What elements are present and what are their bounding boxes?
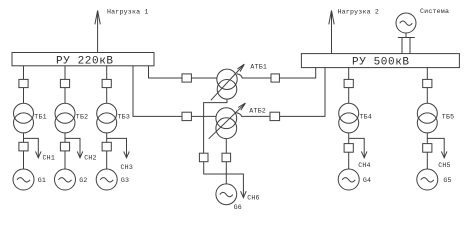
wire system stub (405, 33, 407, 38)
wire system line 2 (409, 38, 411, 54)
svg-text:СН4: СН4 (358, 162, 370, 169)
wire load 2 riser (331, 11, 333, 54)
wire breaker to transformer ТБ1 (23, 88, 25, 104)
busbar РУ 220кВ (12, 53, 154, 66)
svg-text:G5: G5 (443, 177, 451, 184)
wire system line 1 (401, 38, 403, 54)
transformer ТБ4 (339, 103, 359, 133)
arrow СН4 (361, 151, 367, 157)
transformer ТБ1 (14, 103, 34, 133)
svg-text:Система: Система (420, 8, 449, 15)
breaker (branch 5 lower) (423, 144, 432, 153)
wire transformer ТБ5 to breaker (426, 133, 428, 144)
breaker (АТБ1 220 side) (182, 74, 191, 82)
breaker (АТБ2 220 side) (182, 112, 191, 120)
wire bus 220 drop to АТБ2 (133, 66, 182, 117)
svg-text:G6: G6 (234, 204, 242, 211)
wire breaker to transformer ТБ2 (64, 88, 66, 104)
svg-text:РУ 500кВ: РУ 500кВ (352, 57, 410, 69)
wire breaker to АТБ1 (191, 77, 217, 79)
breaker (АТБ2 500 side) (270, 112, 280, 120)
svg-text:G1: G1 (38, 177, 46, 184)
arrow СН6 (241, 191, 247, 197)
tap wire to СН1 (24, 138, 39, 157)
transformer ТБ2 (55, 103, 75, 133)
autotransformer АТБ1 (217, 69, 237, 99)
wire transformer ТБ3 to breaker (106, 133, 108, 142)
svg-text:ТБ1: ТБ1 (34, 114, 46, 121)
wire bus to breaker (branch 4) (348, 68, 350, 80)
wire tertiary join left (204, 162, 227, 174)
wire breaker to transformer ТБ5 (426, 88, 428, 104)
arrow Нагрузка 1 (95, 11, 100, 25)
regulation arrow АТБ1 (211, 64, 245, 100)
breaker (branch 2 upper) (60, 79, 69, 87)
generator G2 (55, 169, 76, 190)
tap wire to СН3 (107, 138, 127, 157)
generator G4 (338, 169, 359, 190)
generator G5 (417, 169, 438, 190)
wire АТБ1 tertiary (204, 99, 227, 153)
generator G1 (13, 169, 34, 190)
transformer ТБ5 (417, 103, 437, 133)
svg-text:СН5: СН5 (438, 162, 450, 169)
tap wire to СН4 (349, 138, 365, 157)
wire bus to breaker (branch 2) (64, 66, 66, 80)
svg-text:ТБ4: ТБ4 (360, 114, 372, 121)
wire transformer ТБ2 to breaker (64, 133, 66, 142)
svg-text:G4: G4 (363, 177, 371, 184)
svg-text:Нагрузка 2: Нагрузка 2 (338, 8, 380, 15)
svg-text:РУ 220кВ: РУ 220кВ (56, 55, 114, 67)
arrow СН2 (77, 151, 83, 157)
wire breaker to generator G4 (348, 152, 350, 169)
wire bus to breaker (branch 5) (426, 68, 428, 80)
breaker (branch 2 lower) (60, 142, 69, 151)
generator G3 (96, 169, 117, 190)
autotransformer АТБ2 (216, 108, 237, 139)
wire breaker to transformer ТБ3 (106, 88, 108, 104)
wire breaker to generator G1 (23, 151, 25, 169)
wire breaker to generator G5 (426, 152, 428, 169)
breaker (branch 4 lower) (344, 144, 353, 153)
regulation arrow АТБ2 (209, 103, 246, 139)
wire АТБ1 to bus 500 (279, 68, 315, 78)
wire transformer ТБ1 to breaker (23, 133, 25, 142)
wire breaker to generator G2 (64, 151, 66, 169)
svg-text:АТБ2: АТБ2 (249, 108, 266, 115)
wire bus 220 drop to АТБ1 (149, 66, 183, 78)
tap wire to СН5 (427, 138, 444, 157)
wire bus to breaker (branch 3) (106, 66, 108, 80)
svg-text:СН2: СН2 (84, 155, 96, 162)
svg-text:ТБ5: ТБ5 (442, 114, 454, 121)
wire АТБ2 right arc (236, 113, 270, 117)
wire АТБ1 right arc (237, 74, 271, 78)
arrow Нагрузка 2 (329, 11, 334, 25)
breaker (tertiary АТБ1) (199, 153, 208, 162)
breaker (branch 3 upper) (102, 79, 111, 87)
system tie bar (398, 37, 415, 39)
wire tertiary join right to G6 (225, 162, 227, 184)
svg-text:ТБ2: ТБ2 (76, 114, 88, 121)
breaker (branch 1 upper) (19, 79, 28, 87)
svg-text:АТБ1: АТБ1 (250, 63, 267, 70)
tap wire to СН6 (226, 174, 243, 197)
breaker (branch 3 lower) (102, 142, 111, 151)
svg-text:ТБ3: ТБ3 (118, 114, 130, 121)
svg-text:G2: G2 (79, 177, 87, 184)
system source Система (396, 13, 416, 33)
svg-text:СН1: СН1 (43, 155, 55, 162)
svg-text:СН6: СН6 (247, 194, 259, 201)
wire breaker to transformer ТБ4 (348, 88, 350, 104)
busbar РУ 500кВ (301, 54, 459, 68)
breaker (branch 1 lower) (19, 142, 28, 151)
wire load 1 riser (97, 11, 99, 53)
arrow СН3 (124, 151, 130, 157)
wire АТБ2 tertiary (225, 139, 227, 154)
wire transformer ТБ4 to breaker (348, 133, 350, 144)
generator G6 (216, 184, 237, 205)
breaker (tertiary АТБ2) (222, 153, 231, 162)
transformer ТБ3 (97, 103, 117, 133)
wire bus to breaker (branch 1) (23, 66, 25, 80)
svg-text:СН3: СН3 (121, 164, 133, 171)
tap wire to СН2 (65, 138, 80, 157)
breaker (branch 5 upper) (423, 79, 432, 87)
breaker (АТБ1 500 side) (271, 74, 279, 82)
svg-text:G3: G3 (121, 177, 129, 184)
wire breaker to АТБ2 (191, 115, 216, 117)
wire АТБ2 to bus 500 (280, 68, 325, 117)
arrow СН5 (441, 151, 447, 157)
svg-text:Нагрузка 1: Нагрузка 1 (107, 8, 149, 15)
wire breaker to generator G3 (106, 151, 108, 169)
arrow СН1 (36, 151, 42, 157)
breaker (branch 4 upper) (344, 79, 353, 87)
